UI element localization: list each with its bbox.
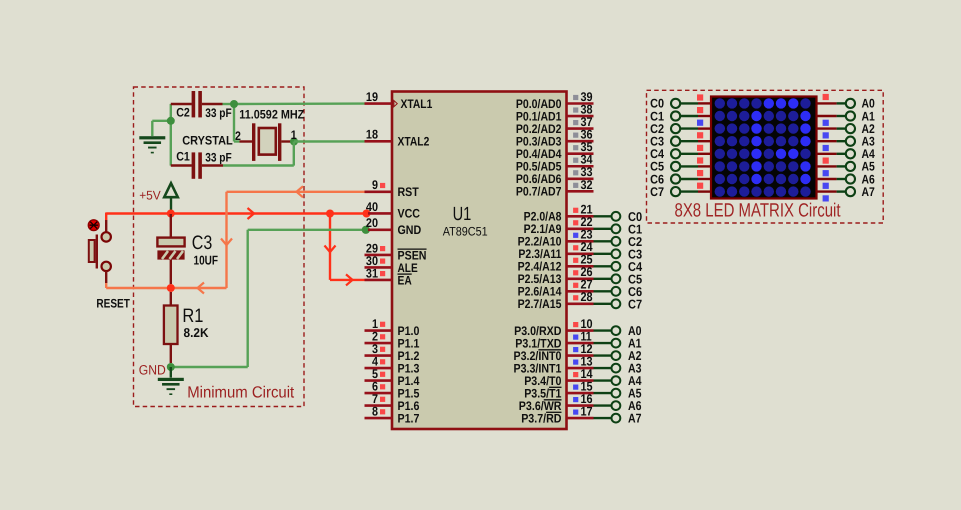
svg-text:C7: C7 [650, 185, 664, 199]
svg-text:8: 8 [372, 405, 378, 419]
svg-text:9: 9 [372, 178, 378, 192]
svg-text:XTAL2: XTAL2 [398, 135, 430, 149]
svg-text:32: 32 [581, 178, 593, 192]
svg-text:20: 20 [366, 216, 378, 230]
svg-text:28: 28 [581, 290, 593, 304]
svg-text:C3: C3 [192, 232, 213, 254]
svg-text:18: 18 [366, 128, 378, 142]
svg-text:31: 31 [366, 266, 378, 280]
svg-text:11.0592 MHZ: 11.0592 MHZ [239, 108, 304, 122]
svg-text:C2: C2 [176, 106, 190, 120]
svg-text:A7: A7 [628, 411, 642, 426]
svg-text:P1.7: P1.7 [398, 411, 420, 425]
svg-text:RESET: RESET [96, 297, 130, 311]
svg-text:C7: C7 [628, 296, 642, 311]
svg-text:17: 17 [581, 405, 593, 419]
svg-text:VCC: VCC [398, 207, 421, 221]
svg-text:EA: EA [398, 274, 412, 288]
svg-text:U1: U1 [453, 204, 472, 225]
svg-text:R1: R1 [182, 305, 203, 327]
svg-text:33 pF: 33 pF [205, 151, 232, 165]
svg-text:C1: C1 [176, 150, 190, 164]
svg-text:RST: RST [398, 185, 420, 199]
svg-text:GND: GND [139, 362, 166, 377]
svg-text:33 pF: 33 pF [205, 106, 232, 120]
svg-text:Minimum Circuit: Minimum Circuit [187, 383, 294, 401]
svg-text:8.2K: 8.2K [184, 325, 210, 340]
svg-text:CRYSTAL: CRYSTAL [182, 134, 233, 148]
svg-text:P2.7/A15: P2.7/A15 [518, 297, 562, 311]
svg-text:40: 40 [366, 200, 378, 214]
svg-text:AT89C51: AT89C51 [443, 224, 488, 238]
svg-text:19: 19 [366, 90, 378, 104]
svg-text:P0.7/AD7: P0.7/AD7 [516, 185, 562, 199]
svg-text:2: 2 [235, 129, 241, 143]
svg-text:+5V: +5V [139, 189, 161, 203]
svg-text:8X8 LED MATRIX Circuit: 8X8 LED MATRIX Circuit [675, 201, 842, 222]
svg-text:P3.7/RD: P3.7/RD [521, 411, 561, 425]
svg-text:1: 1 [291, 128, 297, 142]
svg-text:XTAL1: XTAL1 [401, 97, 433, 111]
svg-text:A7: A7 [862, 185, 875, 199]
svg-text:GND: GND [398, 223, 422, 237]
svg-text:10UF: 10UF [194, 252, 219, 267]
